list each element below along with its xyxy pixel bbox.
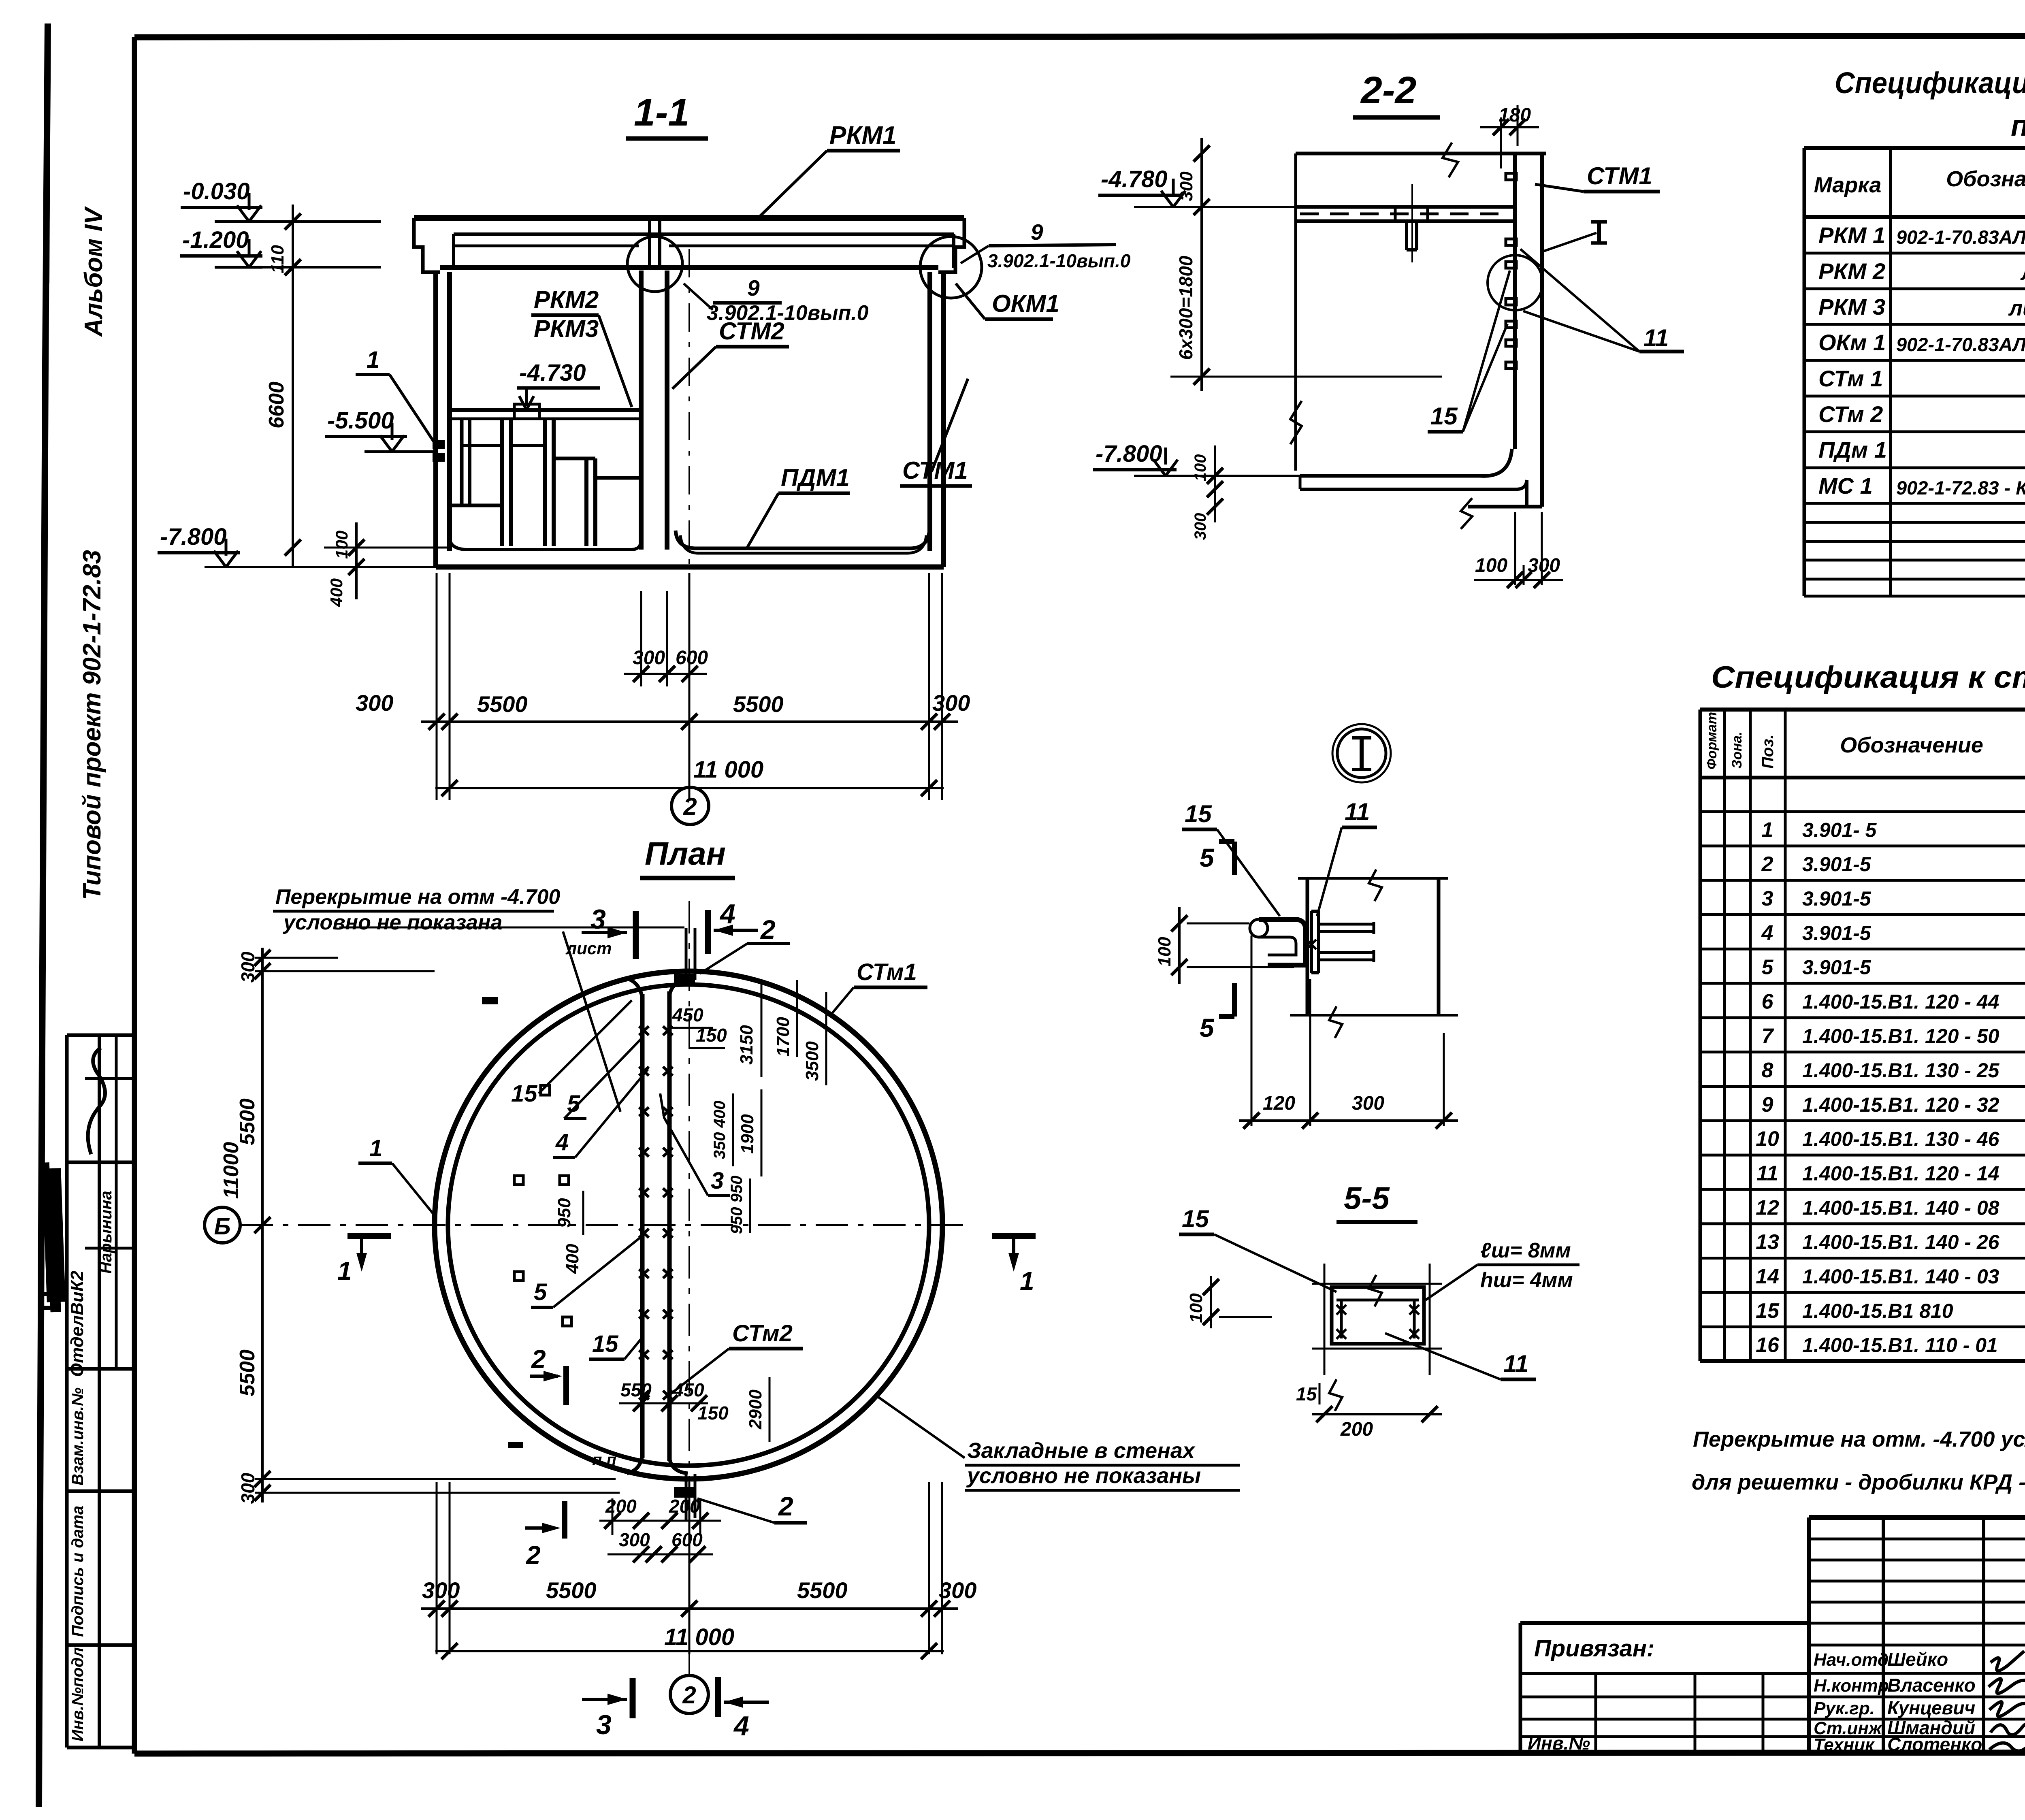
svg-text:110: 110 [268,245,288,273]
svg-text:условно не показаны: условно не показаны [966,1464,1201,1488]
svg-text:ОтделВиК2: ОтделВиК2 [67,1270,87,1377]
section cut 3 bottom [582,1698,627,1701]
svg-text:2: 2 [682,1681,696,1709]
tank center wall [639,271,644,550]
svg-text:5500: 5500 [477,691,528,717]
svg-text:Альбом IV: Альбом IV [80,206,108,337]
plan axis mark 2 bottom [670,1675,708,1713]
svg-text:300: 300 [237,951,258,982]
dim 6x300=1800 [1200,207,1203,391]
svg-text:п.п: п.п [592,1451,616,1469]
plan section cut 1 left [347,1233,391,1239]
svg-text:15: 15 [1430,403,1458,430]
section 1-1 lower extension lines [436,573,438,800]
svg-text:Марка: Марка [1814,173,1882,197]
svg-text:Обозначение: Обозначение [1946,167,2025,191]
svg-text:1.400-15.В1. 120 - 50: 1.400-15.В1. 120 - 50 [1802,1025,1999,1047]
plan center small dims rotated [732,1093,734,1166]
svg-text:7: 7 [1762,1024,1774,1048]
svg-text:РКМ 3: РКМ 3 [1818,294,1885,320]
section 1-1 roof slab [414,215,964,221]
svg-text:4: 4 [1761,921,1773,945]
svg-text:Шейко: Шейко [1887,1649,1948,1670]
svg-text:200: 200 [669,1496,700,1517]
leader right 9 [961,246,989,263]
svg-text:Формат: Формат [1704,712,1720,769]
svg-text:2: 2 [531,1345,546,1374]
svg-text:2900: 2900 [746,1390,765,1430]
svg-text:2: 2 [778,1491,793,1521]
svg-text:Перекрытие на отм -4.700: Перекрытие на отм -4.700 [275,885,560,909]
svg-text:9: 9 [1762,1093,1773,1117]
anchor assembly [1250,919,1268,937]
svg-text:300: 300 [422,1577,460,1603]
callout circle at roof center [627,237,682,292]
svg-text:1: 1 [367,347,379,373]
plan rotated dims 3150 1700 3500 [761,980,763,1077]
plan section cut 1 right [992,1233,1036,1239]
leader to center circle [684,283,713,310]
section cut 3 top [582,931,627,934]
refs with breaks 5-5 [1312,1283,1442,1285]
svg-text:100: 100 [1475,555,1507,576]
svg-text:Спецификация к стенам СТм1, С: Спецификация к стенам СТм1, СТм2 [1711,660,2025,695]
svg-text:-7.800: -7.800 [1096,441,1162,467]
frame border [134,36,2025,37]
svg-text:1: 1 [1762,818,1773,842]
signature grid [1882,1517,1885,1752]
dim 300 600 small [624,673,707,675]
svg-text:3.901-5: 3.901-5 [1802,922,1872,944]
svg-text:2: 2 [1761,852,1773,876]
roof center beam joint [648,221,651,268]
section cut 4 top [714,929,758,932]
svg-text:Кунцевич: Кунцевич [1887,1697,1975,1718]
embed mark on left wall poz 1 [433,440,445,449]
dim 11000 row [435,787,944,789]
section cut 2 plan lower [525,1526,553,1530]
arrow -4.730 [525,388,528,406]
detail I circle mark [1337,729,1386,778]
svg-text:для решетки - дробилки КРД -: для решетки - дробилки КРД -40 м [1692,1470,2025,1494]
svg-text:3.901-5: 3.901-5 [1802,956,1872,979]
left chamber platform at -4.730 [450,408,641,412]
svg-text:950 950: 950 950 [728,1176,746,1234]
svg-text:Спецификация к схеме располо: Спецификация к схеме расположения элемен… [1835,66,2025,100]
svg-text:11: 11 [1756,1162,1778,1185]
dim 100 400 bottom left [355,522,358,599]
svg-text:5500: 5500 [733,691,784,717]
svg-text:300: 300 [356,690,393,716]
svg-text:5: 5 [1200,843,1215,872]
svg-text:Слотенко: Слотенко [1887,1734,1982,1755]
dim row 300 5500 5500 300 [421,720,958,723]
left chamber internal walls [460,419,464,505]
section 2-2 right wall [1513,153,1517,449]
pedestal axis line [1411,184,1413,262]
callout circle at roof right end [920,237,982,298]
svg-text:3.902.1-10вып.0: 3.902.1-10вып.0 [987,250,1131,271]
section mark 5 lower [1232,983,1237,1017]
svg-text:300: 300 [633,647,665,669]
leader perekrytie [563,931,620,1112]
plan top reference line [339,927,684,929]
leader OKM1 [956,283,985,319]
svg-text:15: 15 [592,1331,618,1357]
dims 100 300 left bottom [1214,445,1216,522]
dim 6600 left [292,267,294,567]
svg-text:14: 14 [1756,1265,1779,1288]
svg-text:5: 5 [1762,956,1774,979]
plan dim row 300 5500 5500 300 [421,1607,958,1610]
svg-text:Власенко: Власенко [1887,1675,1976,1696]
svg-text:300: 300 [1352,1093,1384,1114]
svg-text:1.400-15.В1. 120 - 32: 1.400-15.В1. 120 - 32 [1802,1093,1999,1116]
break mark bottom [1461,498,1472,529]
svg-text:11: 11 [1643,324,1669,352]
svg-text:Инв.№подл.: Инв.№подл. [69,1643,87,1741]
svg-text:СТМ2: СТМ2 [719,318,784,345]
svg-text:4: 4 [733,1711,749,1741]
svg-text:950: 950 [554,1198,574,1228]
svg-text:hш= 4мм: hш= 4мм [1480,1268,1573,1292]
dim 100 5-5 [1210,1276,1212,1328]
spec table 1 grid [1803,148,1806,596]
plan center wall band [640,994,645,1458]
svg-text:350 400: 350 400 [711,1101,729,1159]
dim 120 300 detail [1239,1119,1458,1122]
svg-text:902-1-72.83 - КЖИ - МС1: 902-1-72.83 - КЖИ - МС1 [1896,477,2025,499]
slab at -4.780 with dashed hidden line [1296,205,1515,209]
svg-text:1.400-15.В1. 140 - 08: 1.400-15.В1. 140 - 08 [1802,1196,1999,1219]
detail I reference mark [1597,222,1601,243]
svg-text:Н.контр.: Н.контр. [1814,1676,1894,1696]
svg-text:9: 9 [1031,220,1043,245]
svg-text:2: 2 [760,914,776,944]
tank right wall [941,272,946,567]
hatch mark top of wall [482,997,498,1004]
axis mark 2 circle [671,787,709,825]
svg-text:1.400-15.В1. 120 - 44: 1.400-15.В1. 120 - 44 [1802,990,1999,1013]
svg-text:5: 5 [534,1279,547,1305]
svg-text:16: 16 [1756,1334,1780,1357]
svg-text:450: 450 [672,1004,703,1025]
plan left dim chain [261,948,264,1502]
svg-text:1.400-15.В1 810: 1.400-15.В1 810 [1802,1300,1953,1322]
black marker blob on margin [41,1162,66,1312]
svg-text:5500: 5500 [546,1577,597,1603]
svg-text:3.901-5: 3.901-5 [1802,887,1872,910]
svg-text:3: 3 [596,1709,612,1740]
svg-text:Инв.№: Инв.№ [1528,1733,1590,1754]
svg-text:РКМ3: РКМ3 [534,315,599,342]
privyazan block [1520,1621,1809,1625]
svg-text:5500: 5500 [797,1577,848,1603]
svg-text:Типовой проект 902-1-72.83: Типовой проект 902-1-72.83 [78,550,106,900]
svg-text:11: 11 [1503,1350,1528,1377]
svg-text:Нарынина: Нарынина [97,1191,115,1274]
center axis line section 1-1 [688,249,690,786]
svg-text:15: 15 [1756,1299,1780,1323]
svg-text:3500: 3500 [802,1041,822,1081]
svg-text:100: 100 [1192,454,1209,482]
svg-text:6х300=1800: 6х300=1800 [1175,256,1196,360]
dim 300 right of -4.780 [1200,138,1203,227]
svg-text:лист: лист [565,939,612,958]
svg-text:300: 300 [939,1577,976,1603]
dim 110 left [292,205,294,283]
svg-text:1: 1 [369,1135,382,1161]
plan horizontal center axis [241,1224,968,1226]
svg-text:15: 15 [1182,1205,1209,1232]
svg-text:100: 100 [1186,1293,1206,1323]
svg-text:3.901- 5: 3.901- 5 [1802,818,1877,841]
svg-text:11000: 11000 [220,1142,243,1199]
section cut 2 plan upper [530,1375,558,1378]
svg-text:300: 300 [619,1529,650,1550]
svg-text:15: 15 [511,1080,537,1107]
svg-text:2: 2 [683,793,697,820]
svg-text:1-1: 1-1 [634,91,689,134]
svg-text:ℓш= 8мм: ℓш= 8мм [1480,1239,1571,1262]
svg-text:подземной части.: подземной части. [2011,110,2025,142]
svg-text:План: План [645,835,726,872]
detail wall lines [1306,878,1309,1015]
tank left wall [433,272,438,567]
leader RKM2 [599,315,632,407]
svg-text:4: 4 [555,1129,569,1155]
svg-text:СТМ1: СТМ1 [1587,162,1652,190]
svg-text:6: 6 [1762,990,1774,1013]
svg-text:8: 8 [1762,1059,1773,1082]
svg-text:Взам.инв.№: Взам.инв.№ [69,1387,87,1485]
svg-text:Закладные в стенах: Закладные в стенах [967,1439,1196,1463]
detail wall top bottom refs [1298,877,1448,880]
svg-text:Техник: Техник [1814,1735,1875,1755]
svg-text:5-5: 5-5 [1344,1180,1390,1216]
svg-text:-4.730: -4.730 [519,360,586,386]
section 2-2 left cut line [1294,153,1297,471]
svg-text:условно не показана: условно не показана [282,911,502,934]
svg-text:Зона.: Зона. [1729,731,1745,769]
svg-text:1.400-15.В1. 130 - 25: 1.400-15.В1. 130 - 25 [1802,1059,2000,1082]
svg-text:400: 400 [327,578,346,607]
svg-text:15: 15 [1296,1383,1317,1404]
svg-text:РКМ2: РКМ2 [534,286,599,313]
leader RKM1 [757,151,827,219]
handwritten signatures [1989,1651,2025,1765]
leader STM1 [932,379,968,472]
svg-text:РКМ1: РКМ1 [829,121,897,149]
vertical plate [1310,911,1313,973]
svg-text:2: 2 [526,1541,541,1570]
svg-text:СТм1: СТм1 [857,959,917,985]
svg-text:ПДМ1: ПДМ1 [781,464,850,491]
svg-text:5500: 5500 [236,1098,259,1145]
svg-text:1.400-15.В1. 130 - 46: 1.400-15.В1. 130 - 46 [1802,1128,2000,1151]
svg-text:1: 1 [1020,1266,1034,1296]
svg-text:400: 400 [563,1244,582,1274]
svg-text:200: 200 [1340,1419,1373,1440]
svg-text:лист 16÷21: лист 16÷21 [2008,296,2025,320]
svg-text:Подпись и дата: Подпись и дата [69,1506,87,1637]
svg-text:3: 3 [590,904,606,935]
svg-text:Привязан:: Привязан: [1534,1635,1654,1662]
svg-text:300: 300 [237,1473,258,1504]
svg-text:1.400-15.В1. 140 - 26: 1.400-15.В1. 140 - 26 [1802,1231,2000,1253]
bottom wall stub at axis [685,1474,688,1521]
svg-text:13: 13 [1756,1230,1779,1254]
svg-text:5500: 5500 [236,1349,259,1396]
svg-text:3: 3 [1762,887,1773,910]
embedded part squares [514,1176,523,1185]
svg-text:100: 100 [332,531,351,559]
svg-text:120: 120 [1263,1093,1295,1114]
section 2-2 ground line [1296,152,1546,156]
svg-text:-4.780: -4.780 [1101,166,1167,192]
plan dim 11000 [435,1650,944,1652]
svg-text:ОКМ1: ОКМ1 [992,290,1059,317]
svg-text:Рук.гр.: Рук.гр. [1814,1699,1875,1718]
svg-text:СТм 2: СТм 2 [1818,401,1883,427]
svg-text:12: 12 [1756,1196,1779,1219]
svg-text:15: 15 [1185,800,1212,827]
svg-text:1.400-15.В1. 120 - 14: 1.400-15.В1. 120 - 14 [1802,1162,1999,1185]
svg-text:1.400-15.В1. 140 - 03: 1.400-15.В1. 140 - 03 [1802,1265,1999,1288]
hatched wall end bottom [674,1487,695,1498]
pedestal under slab [1405,221,1408,250]
svg-text:ОКм 1: ОКм 1 [1818,330,1886,355]
svg-text:2-2: 2-2 [1360,69,1416,112]
svg-text:1.400-15.В1. 110 - 01: 1.400-15.В1. 110 - 01 [1802,1334,1998,1357]
rods to the right [1319,923,1374,926]
svg-text:3150: 3150 [737,1025,757,1065]
axis mark B circle [205,1207,240,1243]
plan outer circle wall [435,971,942,1479]
svg-text:Обозначение: Обозначение [1840,733,1983,757]
plan vertical axis [688,901,690,1675]
svg-text:300: 300 [932,690,970,716]
tank bottom slab [436,565,944,570]
svg-text:902-1-70.83АЛ. Ⅲл. 20÷21: 902-1-70.83АЛ. Ⅲл. 20÷21 [1896,334,2025,355]
svg-text:1900: 1900 [738,1114,757,1154]
dim 100 detail [1178,907,1181,984]
svg-text:3.901-5: 3.901-5 [1802,853,1872,876]
plan bottom extension lines [436,1482,438,1654]
connection marks on wall band [639,1026,649,1035]
break mark on ground line [1443,143,1458,177]
paper left edge (scan) [39,23,48,1807]
hatched wall end top [674,974,695,985]
svg-text:-7.800: -7.800 [160,524,226,550]
callout circle on wall [1488,255,1543,310]
svg-text:10: 10 [1756,1127,1779,1151]
svg-text:1: 1 [337,1256,352,1285]
svg-text:-0.030: -0.030 [183,178,249,205]
leader PDM1 [747,493,778,548]
svg-text:МС 1: МС 1 [1818,473,1873,499]
svg-text:Нач.отд: Нач.отд [1814,1650,1889,1670]
svg-text:РКМ 1: РКМ 1 [1818,222,1885,248]
svg-text:300: 300 [1192,513,1209,540]
section mark 5 upper [1232,842,1237,875]
svg-text:11: 11 [1345,798,1370,825]
svg-text:ПДм 1: ПДм 1 [1818,437,1887,462]
svg-text:Поз.: Поз. [1759,734,1777,769]
svg-text:3: 3 [711,1168,724,1194]
svg-text:-5.500: -5.500 [327,407,394,434]
embed plates on wall inner face [1506,173,1516,180]
svg-text:СТм 1: СТм 1 [1818,366,1883,391]
section cut 4 bottom [724,1701,769,1704]
svg-text:9: 9 [747,275,760,300]
svg-text:РКМ 2: РКМ 2 [1818,258,1885,284]
svg-text:Б: Б [214,1213,230,1240]
svg-text:СТм2: СТм2 [732,1320,793,1347]
svg-text:11 000: 11 000 [693,757,763,783]
svg-text:Перекрытие на отм. -4.700 усл: Перекрытие на отм. -4.700 условно показа… [1693,1427,2025,1451]
spec table 2 grid [1699,710,1702,1361]
svg-text:11 000: 11 000 [664,1624,734,1650]
weld cross marks [1307,940,1316,949]
svg-text:150: 150 [697,1402,729,1424]
svg-text:1700: 1700 [773,1017,793,1057]
top wall stub at axis [685,928,688,977]
svg-text:6600: 6600 [265,381,288,428]
svg-text:300: 300 [1177,171,1196,201]
left stamp column table [67,1034,134,1037]
svg-text:-1.200: -1.200 [182,227,249,253]
title block outer and rows [1809,1515,2025,1520]
svg-text:4: 4 [719,899,735,929]
section 2-2 bottom slab [1300,449,1512,476]
svg-text:100: 100 [1155,937,1174,967]
svg-text:5: 5 [1200,1013,1215,1042]
channel section 5-5 [1332,1287,1424,1344]
dim 2900 rotated [769,1377,771,1442]
svg-text:902-1-70.83АЛ.Ⅳл.7÷19: 902-1-70.83АЛ.Ⅳл.7÷19 [1896,226,2025,248]
svg-text:600: 600 [676,647,708,669]
leader STM2 [672,347,716,389]
